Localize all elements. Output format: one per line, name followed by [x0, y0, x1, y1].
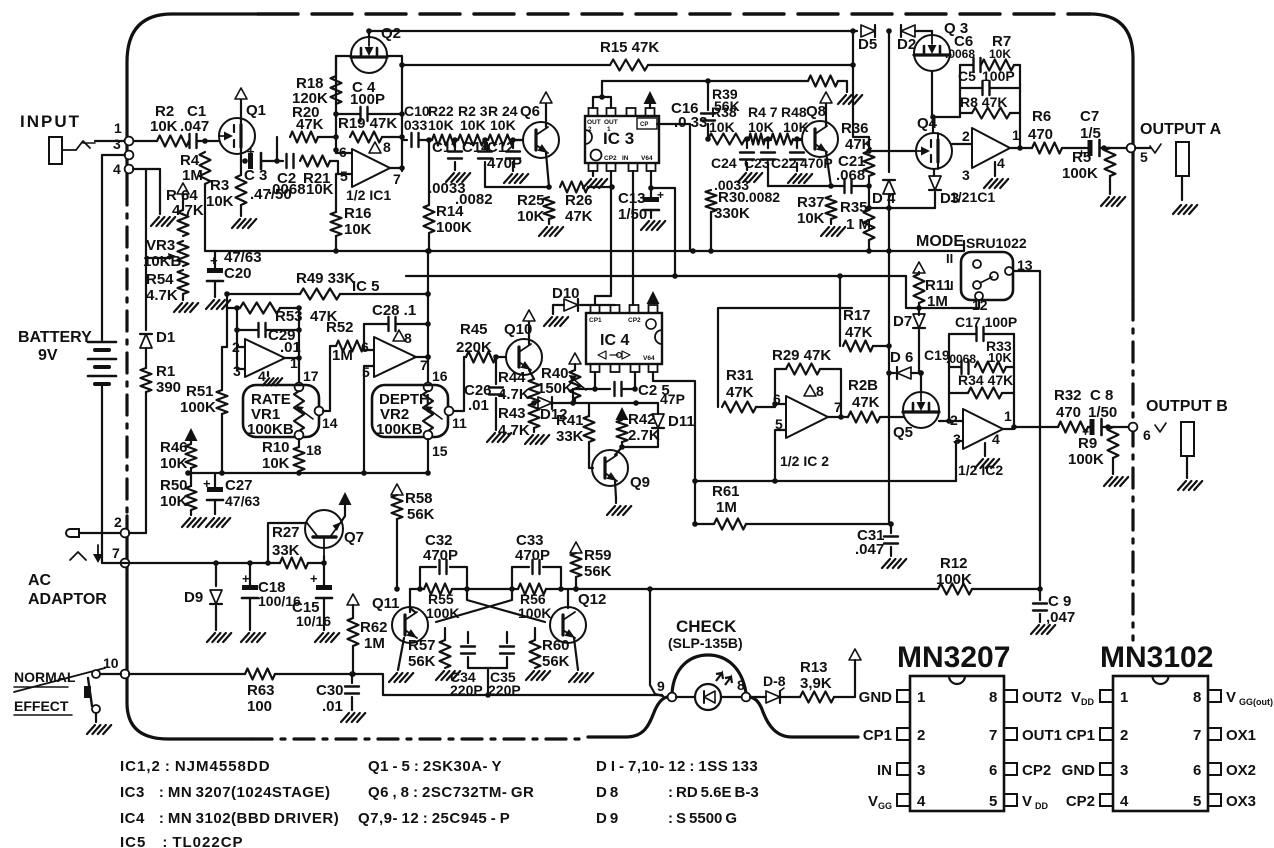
op-amp IC2a — [773, 383, 842, 438]
wire node4 ground stub — [159, 169, 161, 214]
svg-text:2: 2 — [1120, 727, 1128, 744]
legend Q7,9-12 — [358, 810, 510, 827]
svg-text:MN3102: MN3102 — [1100, 641, 1213, 674]
svg-text:1/5: 1/5 — [1080, 125, 1101, 142]
resistor R51 100K — [180, 383, 228, 416]
label EFFECT — [14, 698, 69, 714]
op-amp IC5b — [361, 330, 428, 380]
capacitor C23 — [744, 136, 775, 186]
wire R1 to node 2 — [145, 392, 147, 533]
svg-text:V: V — [1226, 689, 1236, 706]
wire supply rail y31 — [369, 30, 857, 32]
legend D9 — [596, 810, 618, 827]
capacitor C25 47P — [615, 382, 685, 407]
legend D9 value — [668, 810, 737, 827]
wire R17 right — [873, 343, 892, 349]
svg-text:4.7K: 4.7K — [172, 202, 204, 219]
svg-text:8: 8 — [989, 689, 997, 706]
svg-text:47K: 47K — [296, 116, 324, 133]
svg-text:470P: 470P — [487, 155, 522, 172]
output B check mark — [1155, 423, 1166, 432]
label AC — [28, 572, 52, 589]
svg-text:R45: R45 — [460, 321, 488, 338]
wire Q7 collector loop — [268, 523, 307, 563]
svg-text:18: 18 — [306, 442, 322, 458]
mode switch contacts — [973, 260, 1013, 300]
wire x1020 rail — [1017, 65, 1023, 151]
node 16 — [424, 368, 448, 391]
wire IC4 pin1b down — [592, 372, 598, 392]
legend D8 — [596, 784, 618, 801]
wire rail y589 — [410, 586, 1043, 592]
resistor R14 100K — [424, 203, 473, 236]
svg-text:R4 7: R4 7 — [748, 104, 778, 120]
svg-text:C23: C23 — [744, 155, 770, 171]
svg-text:R12: R12 — [940, 555, 968, 572]
legend IC1,2 — [120, 758, 271, 775]
wire battery bottom to AC line — [101, 384, 103, 563]
svg-text:R59: R59 — [584, 547, 612, 564]
svg-text:100K: 100K — [180, 399, 216, 416]
svg-text:5: 5 — [340, 168, 348, 184]
svg-text:CP2: CP2 — [604, 155, 617, 162]
battery B1 — [88, 342, 116, 384]
arrow R46 supply — [185, 428, 198, 441]
svg-text:IC 4: IC 4 — [600, 332, 629, 349]
enclosure border right dash-dot — [1131, 300, 1134, 640]
svg-text:D 9: D 9 — [596, 810, 618, 827]
svg-text:47P: 47P — [660, 391, 685, 407]
wire bridge to rail81 — [601, 81, 603, 97]
transistor Q7 with collector loop — [305, 510, 364, 563]
svg-text:D-8: D-8 — [763, 673, 786, 689]
wire IC5a out — [283, 355, 302, 361]
VR2 wiper node — [445, 407, 467, 431]
node 7 — [112, 545, 129, 567]
wire battery top — [101, 155, 103, 340]
svg-text:100KB: 100KB — [247, 421, 294, 438]
svg-text:IC5 : TL022CP: IC5 : TL022CP — [120, 834, 244, 848]
junction R44 — [531, 400, 537, 406]
svg-text:R6: R6 — [1032, 108, 1051, 125]
label .0033 left — [428, 180, 466, 197]
D10 ground — [544, 305, 568, 326]
legend IC3 — [120, 784, 330, 801]
ground R5 — [1101, 176, 1125, 206]
wire R64 top — [182, 194, 184, 210]
transistor Q11 — [372, 595, 428, 643]
capacitor C16 .033 — [671, 81, 715, 139]
wire C1 to Q1 gate — [197, 138, 218, 144]
svg-text:R57: R57 — [408, 637, 436, 654]
resistor R24 10K — [488, 103, 518, 146]
svg-text:R13: R13 — [800, 659, 828, 676]
resistor R36 47K — [841, 120, 875, 176]
svg-text:C 8: C 8 — [1090, 387, 1113, 404]
svg-text:R11: R11 — [925, 277, 952, 294]
resistor R37 10K — [797, 194, 837, 227]
svg-text:+: + — [657, 188, 664, 202]
svg-text:100: 100 — [247, 698, 272, 715]
svg-text:6: 6 — [1143, 427, 1151, 443]
wire x1014 rail — [1011, 334, 1017, 430]
svg-text:220K: 220K — [456, 339, 492, 356]
svg-text:OUTPUT A: OUTPUT A — [1140, 121, 1222, 138]
label SLP-135B — [668, 635, 743, 651]
wire R46 bottom — [190, 468, 192, 486]
svg-text:V64: V64 — [641, 155, 653, 162]
svg-text:1/2 IC2: 1/2 IC2 — [958, 462, 1003, 478]
svg-text:GG: GG — [878, 801, 892, 811]
svg-text:10K: 10K — [988, 350, 1012, 365]
resistor R6 470 — [1028, 108, 1062, 154]
input jack — [49, 137, 95, 164]
capacitor C9 .047 — [1033, 589, 1075, 626]
resistor R20 47K — [290, 104, 324, 143]
capacitor C4 100P — [336, 79, 402, 121]
capacitor C29 .01 — [237, 323, 301, 356]
svg-text:10K: 10K — [748, 119, 774, 135]
label BATTERY 9V — [18, 329, 92, 346]
resistor R62 1M — [348, 618, 388, 652]
node 9 — [657, 678, 676, 701]
wire y389 C25 — [573, 388, 610, 390]
resistor R61 1M — [712, 483, 746, 530]
IC3 CP1 box wire — [657, 124, 690, 251]
svg-text:7: 7 — [112, 545, 120, 561]
arrow IC5b V+ — [393, 330, 405, 341]
wire D3 bottom — [934, 192, 936, 208]
IC4 internal arrows — [598, 351, 630, 359]
wire D11 bottom — [622, 430, 658, 447]
diode D3 — [929, 169, 959, 207]
resistor R17 47K — [843, 307, 873, 352]
svg-text:R36: R36 — [841, 120, 869, 137]
wire C30 junction to LED — [352, 674, 662, 695]
svg-text:100P: 100P — [982, 68, 1015, 84]
IC3 small pin names — [587, 119, 653, 162]
transistor Q4 — [916, 115, 952, 169]
transistor Q9 — [592, 450, 650, 491]
svg-text:10/16: 10/16 — [296, 613, 331, 629]
svg-text:C24: C24 — [711, 155, 737, 171]
enclosure border left dash-dot — [125, 185, 128, 516]
wire C7 to node5 — [1100, 145, 1127, 151]
svg-text:10K: 10K — [262, 455, 290, 472]
svg-text:4.7K: 4.7K — [146, 287, 178, 304]
wire IC3 VDD junction — [648, 171, 678, 279]
ground Q9 — [607, 498, 631, 515]
svg-text:470: 470 — [1028, 126, 1053, 143]
IC3 body — [585, 116, 659, 163]
wire out1 to C10 — [402, 139, 407, 141]
svg-text:Q7: Q7 — [344, 529, 364, 546]
svg-text:R27: R27 — [272, 524, 300, 541]
wire R18 top to Q2 — [336, 56, 351, 76]
svg-text:15: 15 — [432, 443, 448, 459]
svg-text:14: 14 — [322, 415, 338, 431]
svg-text:10K: 10K — [150, 118, 178, 135]
resistor R25 10K — [517, 192, 555, 225]
wire IC3 pin6 down — [610, 171, 612, 187]
svg-text:D 4: D 4 — [872, 190, 896, 207]
enclosure border top-left corner and left side — [127, 14, 258, 185]
svg-text:56K: 56K — [584, 563, 612, 580]
svg-text:CP2: CP2 — [1066, 793, 1095, 810]
arrow Q8 supply — [820, 92, 832, 103]
svg-text:+: + — [310, 571, 318, 586]
svg-text:C20: C20 — [224, 265, 252, 282]
svg-text:47/63: 47/63 — [225, 493, 260, 509]
svg-text:8: 8 — [816, 383, 824, 399]
op-amp IC2b — [950, 408, 1012, 449]
resistor R58 56K — [392, 490, 435, 523]
node 15 — [424, 431, 448, 459]
svg-text:10K: 10K — [160, 493, 188, 510]
wire switch to node10 — [100, 673, 121, 675]
svg-text:R25: R25 — [517, 192, 545, 209]
ground Q12 emitter — [569, 638, 593, 682]
enclosure border top dashed — [258, 12, 1090, 15]
arrow R62 supply — [347, 594, 359, 605]
svg-text:10K: 10K — [206, 193, 234, 210]
wire R4 to bias line — [204, 184, 206, 251]
svg-text:10K: 10K — [709, 119, 735, 135]
wire C3 to C2 — [262, 158, 283, 164]
wire R40 bottom — [574, 398, 576, 403]
pot RATE VR1 100KB box — [243, 385, 319, 437]
svg-text:6: 6 — [339, 144, 347, 160]
resistor R50 10K — [160, 477, 197, 510]
svg-text:1/2 IC 2: 1/2 IC 2 — [780, 453, 829, 469]
svg-text:: RD 5.6E B-3: : RD 5.6E B-3 — [668, 784, 759, 801]
wire Q4 top — [932, 117, 934, 133]
label MODE — [916, 233, 964, 250]
wire node5 jack — [1135, 147, 1150, 149]
wire Q1 drain up — [240, 100, 242, 126]
normal-effect slash — [14, 668, 105, 715]
ac adaptor arrow — [70, 545, 103, 563]
resistor R52 1M — [326, 319, 364, 364]
wire C8 to node6 — [1102, 424, 1129, 430]
wire x299 rail — [296, 305, 302, 383]
wire R29 left — [775, 369, 786, 404]
node 1 — [114, 120, 133, 145]
svg-text:2: 2 — [950, 412, 958, 428]
output A check mark — [1150, 144, 1161, 153]
ground C20 — [206, 300, 230, 309]
resistor R35 1M — [840, 199, 875, 240]
ground R25 — [539, 219, 563, 236]
svg-text:1/50: 1/50 — [618, 206, 647, 223]
svg-text:10K: 10K — [160, 455, 188, 472]
wire R41 to Q9 — [589, 442, 593, 468]
svg-text:R58: R58 — [405, 490, 433, 507]
svg-text:100K: 100K — [1062, 165, 1098, 182]
label 470P — [800, 155, 833, 171]
wire DEPTH wiper to R45 — [453, 357, 466, 411]
svg-text:1/50: 1/50 — [1088, 404, 1117, 421]
wire input tip to node 1 — [95, 140, 124, 142]
mode switch SRU1022 box — [961, 235, 1027, 300]
node 4 — [113, 161, 133, 177]
wire VR2 bottom — [427, 439, 429, 473]
legend Q6,8 — [368, 784, 534, 801]
resistor R47 10K — [748, 104, 778, 145]
legend D1-7 — [596, 758, 758, 775]
ground R50 — [182, 510, 206, 527]
ground C24 — [738, 173, 762, 182]
wire D2 to Q3 — [915, 30, 932, 32]
wire pin6 stub2 — [775, 403, 786, 405]
resistor R22 10K — [428, 103, 456, 146]
svg-text:33K: 33K — [556, 428, 584, 445]
svg-text:10K: 10K — [797, 210, 825, 227]
svg-text:R14: R14 — [436, 203, 464, 220]
wire x889 long — [886, 28, 892, 172]
wire Q7 emitter arrow — [341, 516, 345, 522]
diode D9 — [184, 563, 222, 606]
wire x237 stub — [234, 305, 240, 369]
wire x227 down — [226, 294, 228, 347]
svg-text:R32: R32 — [1054, 387, 1082, 404]
transistor Q3 — [914, 20, 968, 71]
svg-text:R41: R41 — [556, 412, 584, 429]
wire C16 to R38 — [705, 136, 711, 142]
diode D6 — [890, 349, 913, 379]
svg-text:.033: .033 — [400, 117, 427, 133]
label 1/2 IC 2 — [780, 453, 829, 469]
svg-text:3: 3 — [1120, 762, 1128, 779]
svg-text:7: 7 — [989, 727, 997, 744]
svg-text:: S 5500 G: : S 5500 G — [668, 810, 737, 827]
capacitor C22 — [771, 136, 804, 171]
wire rail y65 — [402, 62, 856, 68]
wire x853 drop — [850, 28, 856, 65]
capacitor C24 — [711, 136, 754, 171]
arrow Q7 supply — [339, 492, 352, 516]
arrow Q6 supply — [540, 92, 552, 103]
svg-text:1: 1 — [917, 689, 925, 706]
diode D11 — [652, 403, 695, 430]
svg-text:R46: R46 — [160, 439, 188, 456]
resistor R16 10K — [331, 205, 372, 238]
svg-text:CP1: CP1 — [589, 317, 602, 324]
svg-text:2: 2 — [588, 126, 592, 133]
svg-text:220P: 220P — [450, 682, 483, 698]
svg-text:100K: 100K — [436, 219, 472, 236]
svg-text:.0 33: .0 33 — [674, 114, 707, 131]
svg-text:100P: 100P — [350, 91, 385, 108]
enclosure border bottom solid with CHECK bulge left — [588, 697, 668, 737]
IC pinout MN3102 — [1062, 676, 1273, 811]
output jack B — [1181, 422, 1194, 456]
capacitor C6 .0068 — [945, 33, 981, 72]
svg-text:3,9K: 3,9K — [800, 675, 832, 692]
svg-text:GG(out): GG(out) — [1239, 697, 1273, 707]
transistor Q10 — [504, 321, 542, 375]
wire Q9 emitter — [615, 481, 616, 498]
wire C25 riser — [634, 372, 636, 389]
svg-text:8: 8 — [404, 330, 412, 346]
resistor R34 47K — [949, 372, 1014, 399]
wire node10 to R63 — [129, 673, 245, 675]
wire y187 left — [485, 186, 549, 188]
svg-text:.0068: .0068 — [945, 47, 975, 61]
label 1/2 IC2b — [958, 462, 1003, 478]
wire Q1 source down — [241, 148, 248, 164]
enclosure border bottom dash-dot — [252, 737, 588, 740]
label 9V — [38, 347, 58, 364]
svg-text:INPUT: INPUT — [20, 112, 81, 131]
svg-text:4: 4 — [992, 431, 1000, 447]
resistor R56 100K — [518, 584, 551, 622]
resistor R29 47K — [772, 347, 831, 375]
svg-text:GND: GND — [1062, 762, 1096, 779]
wire node4 down column x146 — [145, 169, 147, 330]
svg-text:56K: 56K — [407, 506, 435, 523]
svg-text:10K: 10K — [490, 117, 516, 133]
pot DEPTH VR2 100KB box — [372, 385, 448, 437]
resistor R18 120K — [292, 75, 342, 107]
wire node4 right — [133, 168, 160, 170]
wire R14 top — [428, 140, 430, 205]
svg-text:D 8: D 8 — [596, 784, 618, 801]
arrow R58 supply — [391, 484, 403, 495]
capacitor C2 .0068 — [268, 154, 306, 198]
label IC 5 — [352, 278, 380, 295]
ground R9 — [1104, 458, 1128, 486]
wire Q6 base — [514, 139, 523, 141]
wire VR1 wiper to R52 — [323, 346, 336, 411]
svg-text:Q6 , 8 : 2SC732TM- GR: Q6 , 8 : 2SC732TM- GR — [368, 784, 534, 801]
resistor R8 47K — [960, 94, 1020, 119]
svg-text:IC4 : MN 3102(BBD DRIVER): IC4 : MN 3102(BBD DRIVER) — [120, 810, 339, 827]
svg-text:Q1: Q1 — [246, 102, 266, 119]
wire cross couple 2 — [436, 589, 512, 622]
svg-text:D11: D11 — [668, 413, 695, 430]
ground R43 — [525, 428, 549, 444]
svg-text:1: 1 — [607, 126, 611, 133]
label INPUT — [20, 112, 81, 131]
svg-text:R38: R38 — [711, 104, 737, 120]
svg-text:R49 33K: R49 33K — [296, 270, 355, 287]
svg-text:Q1 - 5 : 2SK30A- Y: Q1 - 5 : 2SK30A- Y — [368, 758, 502, 775]
svg-text:.01: .01 — [280, 339, 301, 356]
svg-text:.068: .068 — [836, 167, 865, 184]
label MN3207 — [897, 641, 1010, 674]
resistor R64 4.7K — [166, 187, 204, 236]
svg-text:17: 17 — [303, 368, 319, 384]
capacitor C20 electrolytic 47/63 — [207, 249, 262, 297]
resistor R13 3.9K — [800, 659, 834, 703]
svg-text:C7: C7 — [1080, 108, 1099, 125]
IC3 pins1-2 bridge — [593, 94, 611, 108]
wire R36 bottom — [868, 176, 870, 186]
wire LED — [676, 696, 742, 698]
wire R40 top — [574, 364, 576, 370]
svg-text:1M: 1M — [332, 347, 353, 364]
resistor R53 47K — [227, 303, 338, 326]
wire x960 branch rail — [959, 65, 961, 117]
wire R52 to pin6 — [364, 346, 374, 350]
svg-text:Q12: Q12 — [578, 591, 606, 608]
ground C12 — [504, 174, 528, 183]
capacitor C18 electrolytic 100/16 — [242, 563, 301, 630]
label NORMAL — [14, 669, 76, 685]
capacitor C13 electrolytic 1/50 — [618, 188, 664, 223]
svg-text:9V: 9V — [38, 347, 58, 364]
